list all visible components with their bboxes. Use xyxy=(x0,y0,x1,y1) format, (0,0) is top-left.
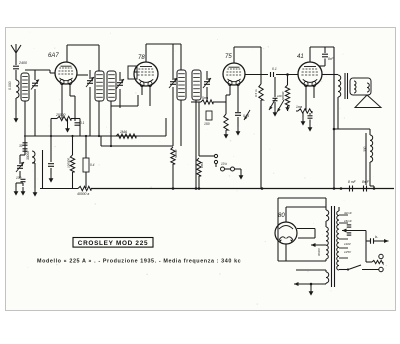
svg-text:78: 78 xyxy=(138,55,145,61)
svg-text:00000: 00000 xyxy=(317,248,321,256)
svg-text:2400: 2400 xyxy=(18,61,27,65)
svg-text:6A7: 6A7 xyxy=(48,53,59,59)
svg-text:0.000: 0.000 xyxy=(8,81,12,90)
svg-text:30: 30 xyxy=(19,144,23,148)
svg-text:8mF: 8mF xyxy=(362,180,370,184)
svg-text:CROSLEY MOD 225: CROSLEY MOD 225 xyxy=(78,240,148,247)
svg-text:50000: 50000 xyxy=(174,149,178,158)
svg-text:10 k: 10 k xyxy=(221,162,227,166)
svg-text:40000 a: 40000 a xyxy=(77,192,89,196)
svg-text:80: 80 xyxy=(278,213,285,219)
svg-text:0.4: 0.4 xyxy=(90,163,95,167)
svg-text:32mF: 32mF xyxy=(344,211,352,215)
svg-text:5ma: 5ma xyxy=(202,96,208,100)
svg-text:110V: 110V xyxy=(344,242,352,246)
svg-text:25000: 25000 xyxy=(55,113,66,117)
svg-text:100: 100 xyxy=(16,176,22,180)
svg-text:1MA: 1MA xyxy=(120,130,128,134)
svg-text:0.5 m: 0.5 m xyxy=(254,89,258,97)
svg-text:8 mF: 8 mF xyxy=(348,180,357,184)
svg-text:75: 75 xyxy=(225,54,232,60)
svg-text:125V: 125V xyxy=(344,250,352,254)
svg-text:0.1: 0.1 xyxy=(80,121,85,125)
svg-text:1kF: 1kF xyxy=(277,94,282,98)
svg-text:1MA: 1MA xyxy=(200,162,204,168)
svg-text:150: 150 xyxy=(204,122,210,126)
svg-text:1ma: 1ma xyxy=(296,105,302,109)
svg-text:100000: 100000 xyxy=(67,158,71,168)
svg-text:Modello « 225 A » . - Produz: Modello « 225 A » . - Produzione 1935. -… xyxy=(37,259,241,265)
svg-text:41: 41 xyxy=(297,54,304,60)
svg-text:0.1: 0.1 xyxy=(272,67,277,71)
svg-text:16mF: 16mF xyxy=(344,219,352,223)
svg-text:30000: 30000 xyxy=(26,151,30,160)
